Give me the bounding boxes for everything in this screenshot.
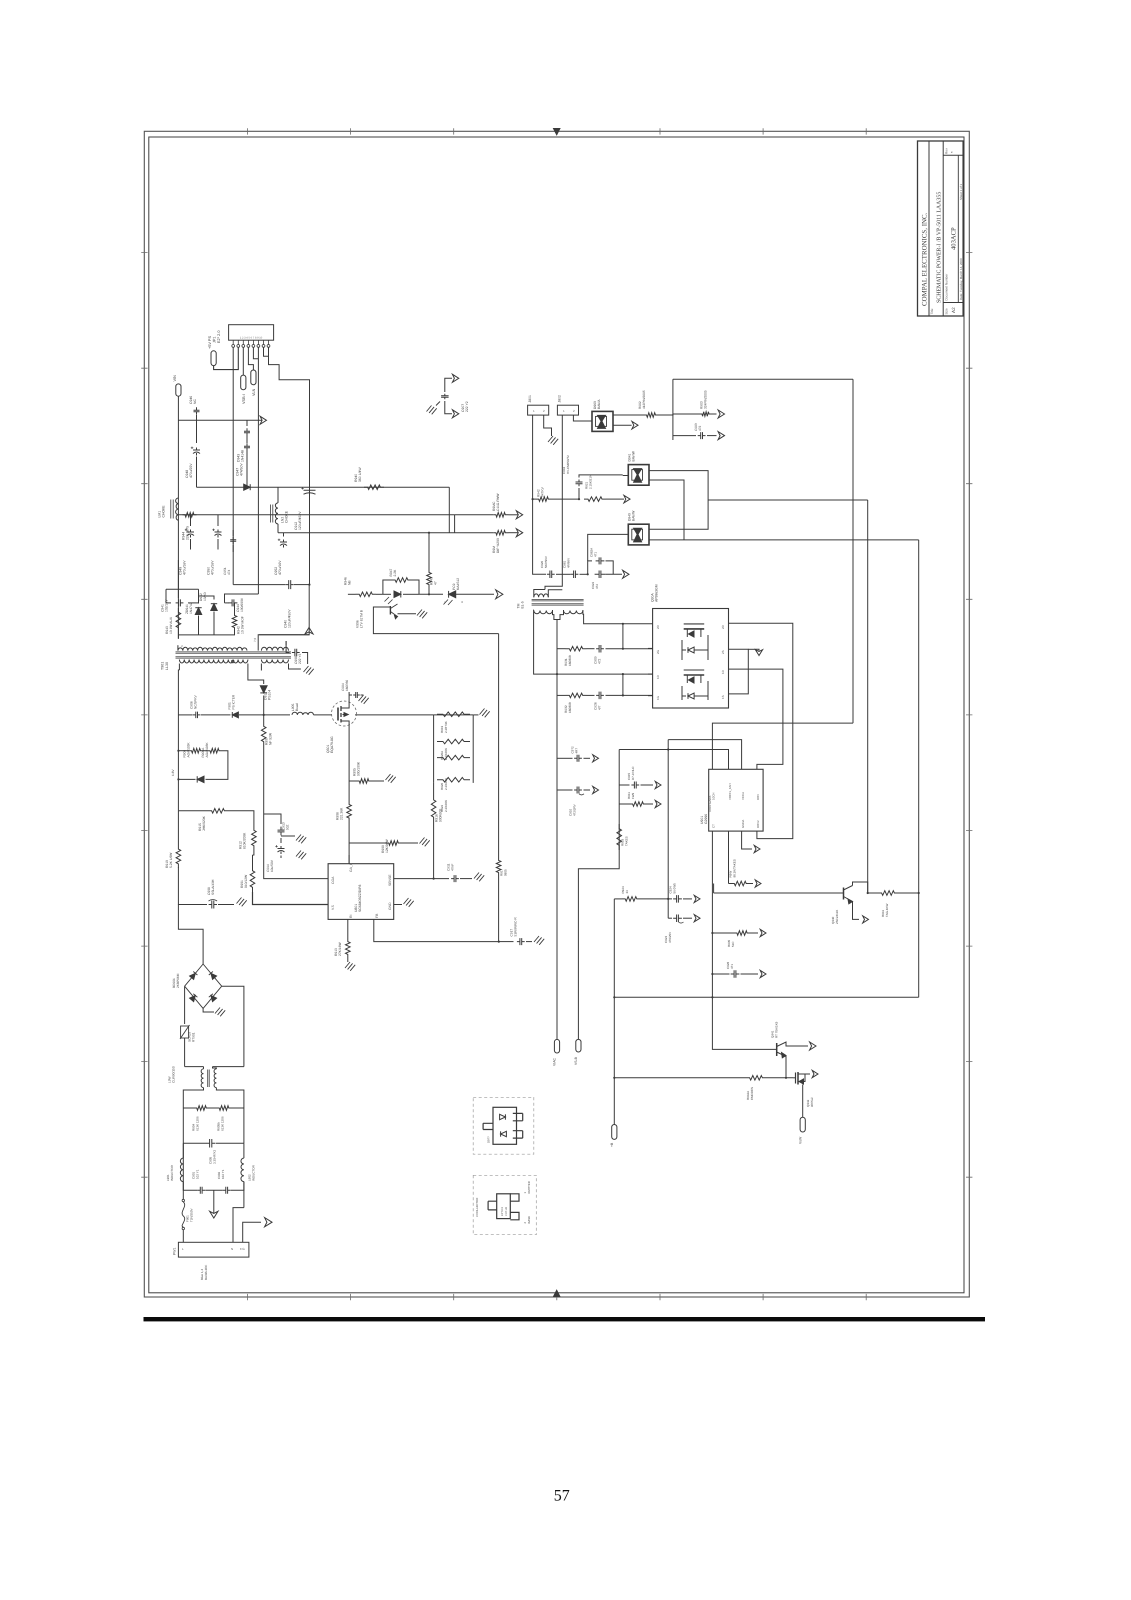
- svg-text:CT: CT: [712, 824, 716, 828]
- title block frame: [918, 141, 964, 316]
- capacitor C914: [280, 838, 282, 843]
- svg-text:DRV: DRV: [756, 794, 760, 800]
- resistor R944 220: [183, 513, 197, 518]
- transformer T901 secondary winding: [179, 660, 248, 663]
- capacitor C940 bulk: [286, 580, 294, 589]
- resistor R949 pullup: [428, 533, 430, 569]
- svg-text:F.G: F.G: [240, 1247, 245, 1251]
- svg-text:13/X0: 13/X0: [203, 592, 207, 601]
- resistor R914 gate: [331, 714, 333, 716]
- svg-text:1N4742: 1N4742: [189, 602, 193, 614]
- capacitor C949 470u: [190, 515, 192, 526]
- capacitor C947 column: [246, 420, 248, 426]
- resistor R921: [578, 498, 580, 500]
- wire U801 right sense: [394, 878, 449, 880]
- diode D942: [199, 596, 215, 600]
- wire Q301 source down: [348, 728, 350, 801]
- capacitor C952 470u: [283, 533, 285, 537]
- wire fb loop down: [498, 634, 500, 857]
- wire Q30A 2D right: [729, 623, 793, 838]
- connector JP1 body: [229, 325, 274, 341]
- wire U801 bottom RI: [347, 919, 349, 938]
- svg-text:BAV/A: BAV/A: [597, 399, 601, 409]
- svg-text:J801: J801: [528, 395, 532, 402]
- wire U801 left pin1: [264, 855, 328, 879]
- svg-text:AGA/103K: AGA/103K: [205, 742, 209, 758]
- resistor R926 arrow: [728, 831, 730, 883]
- wire J802 pin1 down: [545, 415, 562, 589]
- wire bias left join: [177, 750, 179, 752]
- wire x668 column: [667, 740, 669, 919]
- thermistor RT901: [184, 986, 186, 1024]
- resistor R903 arrow: [673, 413, 700, 415]
- svg-text:474: 474: [227, 569, 231, 575]
- svg-text:0805: 0805: [503, 869, 507, 876]
- arrow bus ground: [305, 628, 313, 634]
- net VLN stadium: [251, 370, 256, 385]
- svg-text:+B: +B: [610, 1142, 614, 1147]
- svg-text:GND: GND: [388, 902, 392, 910]
- RC snubber R931 C909: [557, 648, 566, 650]
- wire bridge right: [222, 986, 244, 1066]
- wire PW1 N: [233, 1208, 244, 1243]
- frame zone ticks top: [247, 128, 866, 134]
- wire R946 link: [454, 515, 456, 533]
- svg-text:471: 471: [593, 552, 597, 557]
- drawing frame outer border: [144, 131, 969, 1297]
- svg-text:AP9963GM: AP9963GM: [655, 584, 659, 602]
- capacitor C981: [556, 573, 571, 575]
- wire x853 to U901: [712, 723, 853, 769]
- svg-text:A: A: [460, 601, 464, 603]
- fuse F901: [182, 1190, 184, 1199]
- svg-text:DIP %200: DIP %200: [496, 538, 500, 553]
- resistor R901: [252, 855, 254, 866]
- resistor R915: [208, 809, 228, 814]
- svg-text:2SC2411K: 2SC2411K: [835, 910, 839, 924]
- wire aux link down: [448, 487, 450, 533]
- svg-text:Size: Size: [945, 308, 949, 314]
- title block rev cell divider: [943, 155, 963, 302]
- wire +5V to JP1 pin2: [214, 347, 239, 369]
- bridge BD901: [185, 964, 222, 1008]
- svg-text:*: *: [950, 151, 955, 153]
- wire Q30A 1D: [729, 669, 783, 769]
- svg-text:D7-9 NLO: D7-9 NLO: [631, 766, 635, 780]
- wire snubber top: [177, 560, 179, 598]
- svg-text:470u/16V: 470u/16V: [278, 560, 282, 575]
- svg-text:51C: 51C: [731, 941, 735, 947]
- svg-text:BASE: BASE: [527, 1216, 531, 1224]
- ground C907: [427, 406, 432, 412]
- IC Q30A mosfet1: [684, 623, 705, 625]
- IC Q30A internal links: [707, 635, 709, 660]
- svg-text:221.36K: 221.36K: [340, 807, 344, 820]
- svg-text:10u/50V: 10u/50V: [270, 859, 274, 872]
- svg-text:324PIN/2005: 324PIN/2005: [704, 390, 708, 409]
- capacitor C913: [278, 827, 285, 836]
- wire U801 sense top pin: [348, 855, 350, 864]
- svg-text:SCHEMATIC POWER-I /B VP-5011 L: SCHEMATIC POWER-I /B VP-5011 LAA355: [937, 192, 943, 303]
- capacitor C911: [451, 875, 459, 882]
- svg-text:470u/16V: 470u/16V: [211, 560, 215, 575]
- diode pack D960: [592, 411, 613, 431]
- resistor R907: [263, 715, 265, 722]
- svg-text:EL-5: EL-5: [521, 601, 525, 608]
- wire branch x868: [708, 499, 868, 501]
- svg-text:102 Y1: 102 Y1: [221, 1169, 225, 1179]
- svg-text:NB: NB: [348, 580, 352, 585]
- connector pack U902 diodes: [500, 1114, 506, 1119]
- svg-text:1 2 3 4 5 6 7 8 9 10: 1 2 3 4 5 6 7 8 9 10: [240, 336, 263, 339]
- opto pack D940: [628, 524, 649, 545]
- svg-text:403ACP: 403ACP: [951, 227, 958, 250]
- inductor L901: [182, 1143, 184, 1158]
- svg-text:KA4S12: KA4S12: [456, 578, 460, 590]
- connector JP1 pins: [233, 340, 268, 344]
- svg-text:KPT/C2: KPT/C2: [501, 1206, 504, 1216]
- svg-text:PS104: PS104: [268, 690, 272, 700]
- wire J802 pin2 to D960: [573, 415, 592, 421]
- svg-text:220 J975: 220 J975: [186, 526, 190, 540]
- arrow Q940 emitter: [863, 916, 869, 923]
- connector pack U903 dashed box: [473, 1175, 536, 1234]
- capacitor C928 arrow: [712, 973, 729, 975]
- svg-text:474/50V: 474/50V: [240, 463, 244, 476]
- wire secondary left rail: [178, 670, 179, 811]
- ground arrow aux wire: [260, 416, 266, 424]
- IC U901 box: [709, 769, 763, 831]
- arrow fb out: [496, 590, 503, 599]
- net VIAC stadium: [554, 1039, 559, 1053]
- wire aux y515: [178, 514, 454, 516]
- svg-text:471: 471: [730, 964, 734, 969]
- svg-text:EMODES: EMODES: [750, 1087, 754, 1100]
- wire snub1 tie: [622, 624, 624, 649]
- wire JP1 pin5-6 rail: [253, 347, 258, 358]
- capacitor C912 bulk: [309, 480, 311, 485]
- zener ZD941: [198, 589, 200, 603]
- svg-text:120uF/450V: 120uF/450V: [288, 609, 292, 628]
- frame zone ticks bottom: [247, 1294, 866, 1300]
- svg-text:27K/16W: 27K/16W: [338, 942, 342, 956]
- wire R924 row: [614, 898, 622, 900]
- wire C920 row: [533, 499, 546, 574]
- net +5V stadium: [211, 351, 216, 366]
- arrow Q30A source gnd: [748, 648, 755, 650]
- capacitor C941: [166, 602, 171, 604]
- svg-text:1W9: 1W9: [631, 793, 635, 800]
- svg-text:VIN: VIN: [173, 375, 177, 382]
- wire bus997: [614, 996, 918, 998]
- resistor R905 to ground: [349, 780, 356, 782]
- transistor Q940: [843, 888, 845, 900]
- svg-text:AGA/103K: AGA/103K: [187, 742, 191, 758]
- resistor R916: [433, 783, 435, 795]
- svg-text:DRV2: DRV2: [756, 820, 760, 828]
- svg-text:K: K: [443, 601, 447, 603]
- svg-text:7,8: 7,8: [253, 637, 257, 642]
- svg-text:Bead: Bead: [295, 703, 299, 711]
- wire FB junction: [499, 941, 513, 943]
- capacitor C917: [517, 938, 525, 945]
- svg-text:100/600V: 100/600V: [240, 597, 244, 612]
- ground C908: [304, 666, 309, 672]
- wire D941 left pin: [623, 475, 629, 477]
- svg-text:2G: 2G: [656, 649, 660, 654]
- inductor L905 bead: [292, 712, 314, 715]
- wire R915 row: [177, 811, 179, 845]
- wire main rail y715: [178, 714, 192, 716]
- ground C913: [281, 835, 295, 837]
- connector pack U902 body: [493, 1107, 517, 1144]
- svg-text:360 1/4W: 360 1/4W: [358, 467, 362, 482]
- net +B stadium: [612, 1125, 617, 1140]
- svg-text:2S: 2S: [721, 650, 725, 654]
- svg-text:N: N: [231, 1247, 233, 1251]
- capacitor C948 470u: [196, 420, 198, 443]
- svg-text:C11G FWW: C11G FWW: [496, 493, 500, 511]
- svg-text:Date: Tuesday, March 14, 20: Date: Tuesday, March 14, 2000: [959, 258, 963, 300]
- svg-text:GNDA: GNDA: [741, 820, 745, 828]
- svg-text:Rev: Rev: [945, 148, 949, 154]
- choke LM1: [176, 498, 179, 520]
- svg-text:1G: 1G: [656, 695, 660, 700]
- svg-text:VS-B: VS-B: [574, 1056, 578, 1065]
- wire bridge feed: [178, 905, 203, 965]
- wire to Q301: [314, 714, 333, 716]
- svg-text:Document Number: Document Number: [945, 273, 949, 301]
- capacitor C903 arrow: [673, 435, 696, 437]
- svg-text:1.6V: 1.6V: [171, 769, 175, 776]
- resistor R919: [437, 712, 470, 717]
- svg-text:4/7: 4/7: [598, 705, 602, 710]
- resistor R946 with arrow: [493, 513, 508, 518]
- resistor R920: [437, 755, 470, 760]
- svg-text:160R30: 160R30: [345, 680, 349, 691]
- wire D960 out: [613, 414, 644, 416]
- wire bus1078: [614, 1077, 746, 1079]
- wire aux top horizontal: [178, 419, 260, 421]
- wire bias loop top: [178, 750, 189, 752]
- svg-text:33: 33: [625, 890, 629, 894]
- net VSW stadium: [800, 1117, 805, 1132]
- svg-text:2.2/100K: 2.2/100K: [444, 778, 448, 790]
- ground C914: [296, 851, 301, 857]
- LED PC901: [449, 591, 456, 598]
- resistor R906: [189, 748, 203, 753]
- svg-text:T2N/250V: T2N/250V: [189, 1208, 193, 1222]
- resistor R918: [617, 824, 622, 850]
- resistor R945 with arrow: [493, 530, 508, 535]
- capacitor C907 Y2 bracket: [445, 378, 452, 392]
- svg-text:NF 92W: NF 92W: [269, 732, 273, 745]
- diode D943 1N4148: [244, 484, 251, 490]
- wire U901 GNDA arrow: [742, 831, 752, 849]
- transformer TM2 pins: [534, 610, 557, 674]
- svg-text:470u/25V: 470u/25V: [189, 463, 193, 478]
- svg-text:VLN: VLN: [252, 388, 256, 396]
- capacitor C924 arrow: [673, 895, 682, 903]
- diode D905: [383, 593, 391, 595]
- wire U901 CT down: [712, 831, 776, 1049]
- transformer T901 core: [176, 652, 292, 653]
- resistor R917: [496, 857, 501, 876]
- svg-text:1N4148: 1N4148: [241, 450, 245, 462]
- wire left rail to C2008: [178, 867, 207, 904]
- wire snub2 tie: [622, 674, 624, 695]
- IC U801 box: [328, 864, 394, 920]
- wire JP1 pin7-8 rail: [264, 347, 269, 356]
- svg-text:Sheet 1 of 1: Sheet 1 of 1: [959, 183, 963, 200]
- svg-text:4P/9KV: 4P/9KV: [566, 558, 570, 568]
- svg-text:G2996: G2996: [704, 814, 708, 824]
- IC Q30A diode2: [682, 695, 686, 697]
- svg-text:4R7: 4R7: [574, 748, 578, 754]
- resistor R912: [252, 826, 257, 850]
- svg-text:51W/WWC-R: 51W/WWC-R: [514, 917, 518, 937]
- svg-text:CGA: CGA: [331, 876, 335, 884]
- svg-text:INDUCTOR: INDUCTOR: [170, 1164, 174, 1181]
- zener ZD901: [197, 776, 204, 782]
- wire fb row cont: [419, 593, 443, 595]
- wire big loop top: [673, 378, 853, 380]
- IC Q30A AP9963GM box: [653, 609, 729, 709]
- wire aux mid horizontal: [197, 486, 450, 488]
- svg-text:SSLA/43H: SSLA/43H: [211, 879, 215, 895]
- transformer T901 pins: [177, 645, 179, 650]
- RC snubber R932 C926: [557, 694, 566, 696]
- svg-text:PS ICTER: PS ICTER: [232, 694, 236, 709]
- svg-text:VREFL_FAH: VREFL_FAH: [728, 783, 732, 800]
- svg-text:10CH: 10CH: [712, 793, 716, 800]
- svg-text:SENSE: SENSE: [388, 874, 392, 886]
- resistor R940 360: [364, 485, 384, 490]
- transistor Q301 MOSFET: [332, 701, 357, 726]
- wire big loop right down: [852, 379, 854, 723]
- resistor R922: [437, 778, 470, 783]
- svg-text:HV-CM050/72: HV-CM050/72: [566, 455, 570, 474]
- wire C913 branch: [264, 814, 281, 824]
- svg-text:VCCA: VCCA: [741, 792, 745, 800]
- svg-text:RI: RI: [349, 915, 353, 918]
- arrow Q942 drain: [805, 1073, 810, 1075]
- connector pack U902 dashed box: [473, 1097, 534, 1154]
- wire JP1 pin4 to VLN: [248, 347, 253, 370]
- arrow C907 bottom: [452, 410, 458, 418]
- transistor Q942 MOSFET: [795, 1073, 797, 1084]
- svg-text:VIAC: VIAC: [553, 1058, 557, 1066]
- wire D940 left pin: [588, 534, 629, 561]
- svg-text:2.15K/21%: 2.15K/21%: [588, 474, 592, 489]
- wire sec right top: [285, 641, 287, 645]
- wire fb row: [348, 593, 356, 595]
- svg-text:RT901: RT901: [192, 1032, 196, 1042]
- transistor Q941: [776, 1043, 778, 1056]
- svg-text:613K 1206: 613K 1206: [220, 1116, 224, 1131]
- wire rail to bank: [355, 714, 434, 716]
- wire T901 pins78: [258, 635, 299, 645]
- svg-text:222 Y3: 222 Y3: [298, 653, 302, 664]
- resistor R910: [176, 845, 181, 868]
- ground C911: [474, 873, 479, 879]
- resistor R920A: [437, 739, 470, 744]
- svg-text:+5V PS: +5V PS: [208, 336, 212, 349]
- svg-text:JHK/920K: JHK/920K: [202, 815, 206, 831]
- opto pack D941: [628, 465, 649, 486]
- svg-text:PW1: PW1: [173, 1248, 177, 1255]
- wire left col x619: [578, 750, 619, 1040]
- wire pin56 to snubber: [225, 594, 259, 603]
- svg-text:5KP/96V: 5KP/96V: [544, 556, 548, 568]
- svg-text:D9??: D9??: [487, 1136, 491, 1143]
- svg-text:EMITTER: EMITTER: [527, 1181, 531, 1193]
- wire bank rails: [433, 715, 435, 783]
- svg-text:472/2RV: 472/2RV: [572, 804, 576, 816]
- ground C2008: [237, 898, 242, 904]
- transformer TM2 primary: [534, 594, 549, 597]
- resistor R942B: [234, 603, 236, 612]
- frame center mark bottom: [554, 1290, 560, 1296]
- svg-text:GA_b: GA_b: [349, 863, 353, 872]
- svg-text:BA/4B-3EC: BA/4B-3EC: [204, 1264, 208, 1280]
- capacitor C2008: [209, 901, 217, 909]
- wire JP1 pin3 to VSB-I: [242, 347, 244, 375]
- arrow D960 out2: [613, 424, 632, 426]
- resistor R909 to ground: [349, 842, 386, 844]
- svg-text:102/1KV: 102/1KV: [165, 599, 169, 612]
- resistor R948: [356, 592, 377, 597]
- svg-text:J802: J802: [558, 395, 562, 402]
- svg-text:47nF: 47nF: [451, 864, 455, 871]
- wire Q301 drain up: [348, 692, 350, 702]
- resistor R941: [878, 891, 898, 896]
- svg-text:2KBP06M: 2KBP06M: [176, 973, 180, 988]
- svg-text:V.5: V.5: [331, 905, 335, 910]
- svg-text:222 Y2: 222 Y2: [465, 401, 469, 412]
- resistor R902s: [644, 413, 658, 418]
- ground bridge: [203, 1008, 214, 1012]
- line filter L903: [185, 1066, 204, 1068]
- capacitor C902 Y1: [206, 1189, 223, 1191]
- svg-text:57: 57: [554, 1488, 570, 1505]
- svg-text:NC: NC: [193, 399, 197, 404]
- svg-text:2.2R?3K: 2.2R?3K: [444, 721, 448, 733]
- drawing frame inner border: [149, 137, 964, 1293]
- svg-text:900/100K: 900/100K: [357, 761, 361, 776]
- svg-text:E2* 2.0: E2* 2.0: [217, 331, 221, 343]
- svg-text:472: 472: [598, 658, 602, 664]
- capacitor C946 NC: [196, 415, 198, 420]
- svg-text:A2: A2: [951, 307, 956, 313]
- svg-text:1S: 1S: [721, 695, 725, 699]
- fuse F901b: [232, 712, 238, 718]
- svg-text:LTV 817M B: LTV 817M B: [360, 609, 364, 628]
- svg-text:INDUCTOR: INDUCTOR: [251, 1164, 255, 1181]
- svg-text:910/12W: 910/12W: [244, 874, 248, 888]
- frame center mark top: [554, 129, 560, 135]
- resistor R942A: [746, 1076, 766, 1081]
- wire V906 emitter to ground: [398, 613, 417, 615]
- wire U901 vcc row: [668, 740, 741, 770]
- wire y893 to R941: [868, 892, 878, 894]
- wire PW1 FG arrow: [243, 1222, 261, 1242]
- svg-text:RT 70A/1K9: RT 70A/1K9: [774, 1021, 778, 1038]
- resistor R942: [536, 497, 551, 502]
- wire 1D row: [557, 673, 653, 675]
- svg-text:U901 G2996: U901 G2996: [708, 795, 712, 812]
- capacitor C915 arrow: [619, 784, 629, 786]
